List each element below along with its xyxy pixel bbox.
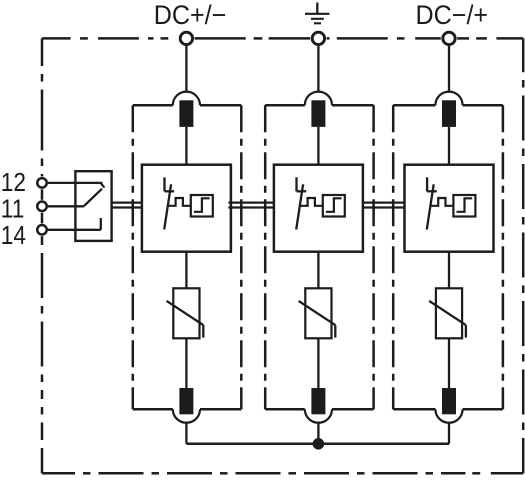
wire terminal 12 to contact: [48, 182, 103, 184]
step waveform inside trigger box U3: [457, 198, 473, 212]
wire spark gap unit 3 to varistor 3: [448, 252, 450, 289]
enclosure outline top border (dash-dot): [42, 37, 71, 40]
plug-in contact arc (top) module 1: [173, 92, 200, 106]
enclosure outline left border (dash-dot): [41, 38, 44, 66]
plug-in contact arc (top) module 3: [435, 92, 462, 106]
wire module 2 to bottom bus: [317, 422, 319, 444]
step waveform inside trigger box U2: [326, 198, 342, 212]
wire spark gap unit 1 to varistor 1: [185, 252, 187, 289]
wire terminal 3 to module 3 plug-in arc: [448, 46, 450, 93]
contact tick (12): [101, 183, 105, 187]
triggered spark gap unit U1 (box): [142, 165, 231, 252]
thermal disconnector (top, black) module 3: [442, 100, 456, 127]
protection path 3: module outline (dash-dot): [393, 104, 435, 107]
svg-text:14: 14: [1, 222, 26, 251]
remote signalling contact box: [75, 171, 111, 241]
wire terminal 2 to module 2 plug-in arc: [317, 46, 319, 93]
wire disconnector to spark gap unit 2: [317, 127, 319, 166]
step waveform inside trigger box U1: [194, 198, 210, 212]
svg-text:11: 11: [1, 195, 24, 224]
wire varistor 2 to bottom disconnector 2: [317, 338, 319, 388]
mechanical linkage (double line): [112, 202, 142, 204]
trigger circuit box inside U3: [453, 195, 475, 217]
varistor RV2 diagonal: [299, 301, 336, 325]
wire spark gap unit 2 to varistor 2: [317, 252, 319, 289]
terminal DC+/-: [178, 30, 195, 47]
protection path 1: module outline (dash-dot): [133, 104, 173, 107]
enclosure outline bottom border (dash-dot): [42, 472, 75, 475]
terminal 14 (circle): [36, 223, 49, 236]
triggered spark gap unit U2 (box): [274, 165, 363, 252]
plug-in contact arc (bottom) module 3: [435, 409, 462, 423]
wire disconnector to spark gap unit 1: [185, 127, 187, 166]
plug-in contact arc (bottom) module 1: [173, 409, 200, 423]
bottom bus wire joining all three paths: [186, 443, 449, 446]
thermal disconnector (bottom, black) module 1: [179, 388, 193, 414]
wire module 3 to bottom bus: [448, 422, 450, 444]
varistor RV3 (rect): [436, 288, 462, 338]
mechanical linkage (double line): [362, 202, 405, 204]
plug-in contact arc (top) module 2: [305, 92, 332, 106]
wire varistor 1 to bottom disconnector 1: [185, 338, 187, 388]
wire disconnector to spark gap unit 3: [448, 127, 450, 166]
enclosure outline right border (dash-dot): [522, 38, 525, 72]
ground symbol (PE terminal): [305, 3, 329, 24]
triggered spark gap unit U3 (box): [405, 165, 494, 252]
changeover contact blade: [84, 189, 102, 206]
protection path 2: module outline (dash-dot): [265, 104, 305, 107]
varistor RV1 (rect): [173, 288, 199, 338]
spark gap switch symbol U1: [164, 177, 191, 229]
varistor RV3 diagonal: [429, 301, 466, 325]
trigger circuit box inside U1: [191, 195, 213, 217]
thermal disconnector (bottom, black) module 3: [442, 388, 456, 414]
thermal disconnector (top, black) module 2: [311, 100, 325, 127]
wire terminal 14 to contact: [48, 229, 101, 231]
terminal DC-/+: [441, 30, 458, 47]
junction node on bus: [313, 438, 325, 450]
wire terminal 11 to contact: [48, 205, 84, 207]
terminal PE (ground): [310, 30, 327, 47]
thermal disconnector (bottom, black) module 2: [311, 388, 325, 414]
wire terminal 1 to module 1 plug-in arc: [185, 46, 187, 93]
svg-text:DC−/+: DC−/+: [416, 0, 489, 30]
wire module 1 to bottom bus: [185, 422, 187, 444]
svg-text:12: 12: [1, 168, 26, 197]
spark gap switch symbol U3: [427, 177, 454, 229]
wire varistor 3 to bottom disconnector 3: [448, 338, 450, 388]
contact 14 fixed pole: [100, 218, 102, 230]
svg-text:DC+/−: DC+/−: [154, 0, 227, 30]
trigger circuit box inside U2: [323, 195, 345, 217]
varistor RV1 diagonal: [167, 301, 204, 325]
spark gap switch symbol U2: [296, 177, 323, 229]
thermal disconnector (top, black) module 1: [179, 100, 193, 127]
plug-in contact arc (bottom) module 2: [305, 409, 332, 423]
terminal 11 (circle): [36, 200, 49, 213]
varistor RV2 (rect): [305, 288, 331, 338]
mechanical linkage (double line): [228, 202, 274, 204]
terminal 12 (circle): [36, 176, 49, 189]
